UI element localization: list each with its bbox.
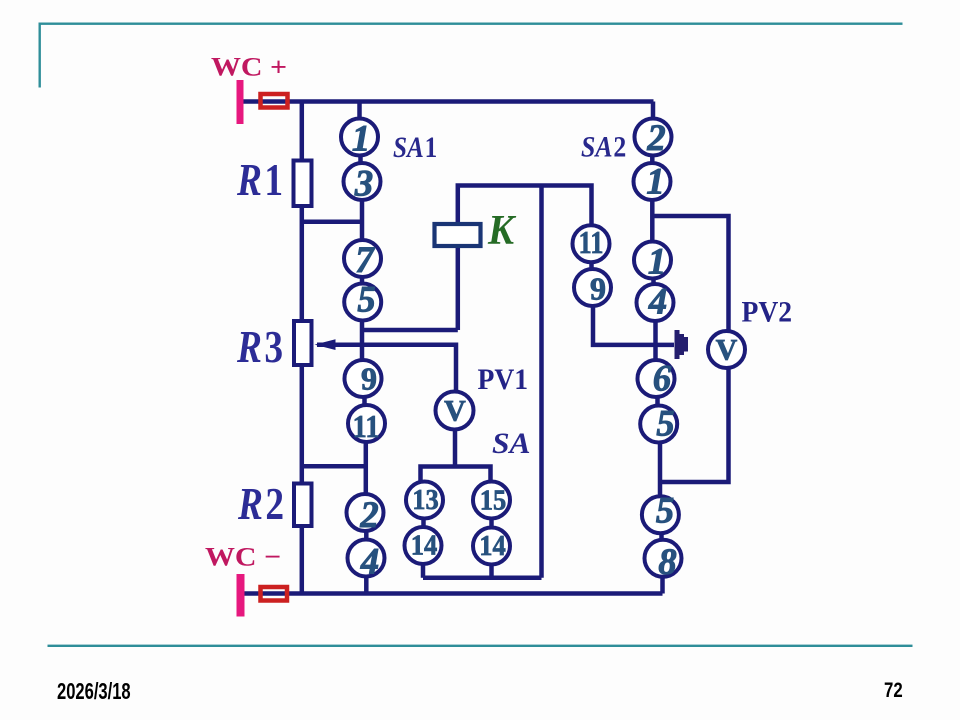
svg-text:SA1: SA1 [393,130,437,164]
label R3 [236,322,283,372]
wire R3 wiper to PV1 top [317,345,456,392]
slide frame bottom line [48,645,913,647]
svg-text:72: 72 [884,679,903,702]
label SA [492,427,531,460]
wire SA2 right column [652,102,662,594]
svg-text:WC +: WC + [211,53,287,82]
label PV1 [478,363,529,396]
svg-text:4: 4 [648,281,667,322]
node SA1-3 [344,163,381,200]
node SA2-1b [634,242,671,279]
resistor R3 body [294,321,312,365]
svg-text:R2: R2 [237,479,284,529]
svg-text:V: V [716,334,738,367]
node SA1-2 [347,494,384,531]
node SA-14a [405,527,442,564]
svg-text:8: 8 [658,541,676,582]
label WC+ [211,53,287,82]
node SA1-5 [344,284,381,321]
svg-text:9: 9 [361,361,377,397]
svg-text:13: 13 [412,485,439,516]
svg-text:15: 15 [480,486,507,517]
label SA1 [393,130,437,164]
contact symbol on wire 4-6 [675,330,689,359]
wire SA1 column [360,102,367,594]
svg-text:5: 5 [656,490,674,531]
svg-text:V: V [444,395,466,428]
wire node 5/9 to relay K coil [364,328,458,333]
svg-text:14: 14 [479,531,506,562]
svg-text:6: 6 [653,358,672,399]
slide frame top line [39,23,903,25]
node mid-9 [574,269,611,306]
svg-text:11: 11 [353,408,380,444]
wire PV1 bottom lead [453,428,458,467]
svg-text:R1: R1 [236,155,283,205]
svg-text:SA: SA [492,427,531,460]
wire branch R1 to SA1 (node between 3 and 7) [302,219,363,224]
svg-text:11: 11 [579,224,604,260]
node SA2-6 [638,360,675,397]
svg-text:PV2: PV2 [742,295,793,328]
wire top rail [244,99,654,104]
wire 15 to 14b [489,512,494,534]
resistor R2 body [294,484,312,527]
wire relay K top to node 11 (middle column) [458,186,592,279]
svg-text:9: 9 [590,271,606,307]
node SA2-8 [645,540,682,577]
node SA1-9 [345,360,382,397]
wire left rail (through R1,R3,R2) [300,102,305,594]
label K [487,207,517,254]
svg-text:5: 5 [357,279,375,320]
WC- terminal bar [237,574,245,617]
node SA1-11 [348,405,385,442]
wire 13 to 14a [421,512,426,534]
node SA-15 [473,482,510,519]
WC+ fuse [261,94,288,108]
svg-text:3: 3 [354,163,373,204]
label WC- [205,543,281,572]
wire SA bracket [421,467,491,482]
rheostat R3 wiper arrowhead [315,339,336,350]
label PV2 [742,295,793,328]
label SA2 [581,131,626,164]
relay K coil body [435,224,481,246]
svg-text:R3: R3 [236,322,283,372]
svg-text:PV1: PV1 [478,363,529,396]
node SA2-1a [634,163,671,200]
node SA-13 [406,482,443,519]
svg-text:WC −: WC − [205,543,281,572]
svg-text:4: 4 [360,541,379,582]
wire SA common bottom horizontal [423,576,542,581]
voltmeter PV2 [708,331,745,368]
footer page number [884,679,903,702]
wire SA common tall vertical [539,186,544,578]
node SA1-1 [341,119,378,156]
wire branch left rail to SA1 (node below 11) [302,464,366,469]
svg-text:K: K [487,207,517,254]
svg-text:7: 7 [355,239,375,280]
node SA1-7 [344,240,381,277]
wire bottom rail [244,591,663,596]
svg-text:SA2: SA2 [581,131,626,164]
node mid-11 [573,225,610,262]
svg-text:1: 1 [352,118,370,159]
wire 14b bottom lead [489,563,494,578]
WC- fuse [261,587,288,601]
node SA2-2 [635,119,672,156]
wire relay K coil bottom lead [456,244,461,330]
svg-text:1: 1 [646,161,664,202]
wire middle column 9 to contact [593,288,674,345]
node SA2-5b [642,496,679,533]
footer date [57,679,131,704]
node SA2-4 [637,284,674,321]
svg-text:2: 2 [646,117,665,158]
SA1 terminal circles column [341,119,745,577]
svg-text:5: 5 [656,403,674,444]
node SA2-5a [640,406,677,443]
wire 14a bottom lead [421,562,426,578]
WC+ terminal bar [237,80,244,124]
label R2 [237,479,284,529]
slide frame left line [39,23,41,88]
resistor R1 body [294,161,312,207]
wire PV2 bottom branch [660,366,729,482]
svg-text:2026/3/18: 2026/3/18 [57,679,131,704]
svg-text:2: 2 [359,494,378,535]
label R1 [236,155,283,205]
node SA1-4 [348,540,385,577]
svg-text:14: 14 [411,531,438,562]
voltmeter PV1 [436,392,474,430]
node SA-14b [473,528,510,565]
svg-text:1: 1 [648,241,666,282]
wire PV2 top branch [652,216,728,333]
